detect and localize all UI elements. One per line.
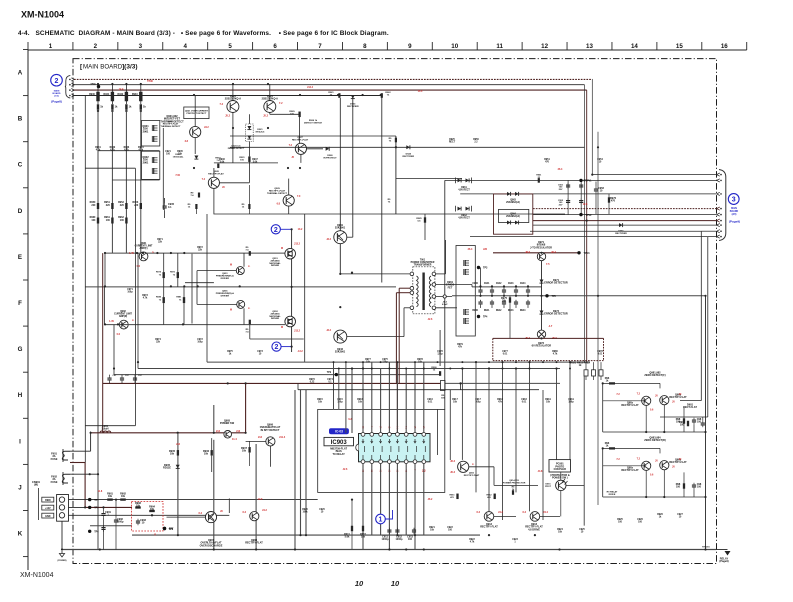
svg-text:J8.6: J8.6 xyxy=(525,251,530,254)
svg-text:4.7k: 4.7k xyxy=(470,541,475,544)
wire cn pin1 xyxy=(69,499,318,501)
wire right link xyxy=(290,179,292,217)
resistor row C2 xyxy=(97,218,99,224)
transistor Q906 thermal xyxy=(266,437,275,446)
maroon box c-mosfet xyxy=(494,194,533,234)
svg-text:2: 2 xyxy=(55,78,59,85)
resistors under ic xyxy=(351,526,353,532)
svg-text:RECTIFY-FLAT: RECTIFY-FLAT xyxy=(669,461,687,464)
svg-text:(2/3): (2/3) xyxy=(732,214,737,216)
diode quad top xyxy=(507,192,511,196)
node TP903 xyxy=(477,266,480,269)
svg-text:R940: R940 xyxy=(89,93,95,96)
svg-text:100: 100 xyxy=(697,421,702,424)
transistor Q913 xyxy=(530,512,540,522)
svg-text:TP1: TP1 xyxy=(94,499,99,502)
wire exit y180 xyxy=(445,179,716,181)
svg-text:J5.2: J5.2 xyxy=(225,115,230,118)
ic903 pin top 7 xyxy=(413,433,417,437)
svg-text:2: 2 xyxy=(94,43,98,50)
svg-text:(M): (M) xyxy=(34,483,38,487)
transistor Q925 thermal xyxy=(190,126,201,137)
transistor Q923 xyxy=(227,101,239,113)
caps under ic xyxy=(387,529,391,531)
svg-text:M: M xyxy=(230,309,232,312)
wire q907 xyxy=(167,516,206,518)
svg-text:2SK2962(x2): 2SK2962(x2) xyxy=(506,202,520,204)
svg-text:4: 4 xyxy=(183,43,187,50)
wire maroon y252 xyxy=(493,252,579,254)
capacitor C982 xyxy=(701,422,705,424)
svg-text:FET: FET xyxy=(448,286,453,289)
svg-text:J-TO REGULATOR: J-TO REGULATOR xyxy=(530,246,552,249)
svg-text:RECTIFIER: RECTIFIER xyxy=(615,233,627,235)
svg-text:M: M xyxy=(281,247,283,250)
svg-text:12: 12 xyxy=(541,43,548,50)
svg-text:R942: R942 xyxy=(117,93,123,96)
caps bank secondary xyxy=(478,289,482,291)
svg-text:RECTIFY-FLAT: RECTIFY-FLAT xyxy=(464,474,480,477)
wire v352 up xyxy=(351,369,353,434)
main board border (dash-dot) xyxy=(73,59,717,564)
resistor R929 xyxy=(298,112,300,118)
svg-text:10k: 10k xyxy=(204,453,209,456)
resistor in xyxy=(609,382,615,384)
svg-text:220: 220 xyxy=(106,204,111,207)
transistor Q924 xyxy=(264,101,276,113)
ic903 pin top 1 xyxy=(361,433,365,437)
svg-text:15: 15 xyxy=(676,43,683,50)
svg-text:TRANSFORMER: TRANSFORMER xyxy=(414,264,432,267)
node TPV2 xyxy=(579,213,582,216)
diode pair cluster 1 xyxy=(458,178,462,182)
svg-text:J4.8: J4.8 xyxy=(538,470,543,473)
resistor R951b inline xyxy=(538,178,540,183)
node tp162 xyxy=(163,527,166,530)
wire exit y236 xyxy=(708,236,716,238)
svg-text:D: D xyxy=(18,208,23,215)
svg-text:IN SPY DETECT: IN SPY DETECT xyxy=(261,429,280,432)
svg-text:13.2: 13.2 xyxy=(298,228,303,231)
ic pin internal xyxy=(424,446,426,452)
svg-text:R941: R941 xyxy=(103,93,109,96)
resistor R963 xyxy=(512,490,514,495)
svg-text:J5.2: J5.2 xyxy=(263,115,268,118)
svg-text:R970: R970 xyxy=(156,272,162,274)
diode D923 rectifier xyxy=(351,95,355,99)
resistor R993 inline xyxy=(249,320,251,325)
ic pin internal xyxy=(372,446,374,452)
svg-text:7.00: 7.00 xyxy=(175,174,180,177)
wire v440 xyxy=(439,330,441,366)
node TP901 xyxy=(97,85,100,88)
svg-text:FUSE: FUSE xyxy=(51,457,58,461)
svg-text:6: 6 xyxy=(273,43,277,50)
diode D981 on exit xyxy=(619,223,623,227)
svg-text:100: 100 xyxy=(408,538,413,541)
svg-text:100p: 100p xyxy=(127,292,133,294)
regulator maroon dashed enclosure xyxy=(492,338,494,360)
svg-text:-4.7: -4.7 xyxy=(548,325,553,328)
resistor R914 xyxy=(140,101,142,104)
wire maroon ic pin5 xyxy=(396,380,398,433)
red dashed option box xyxy=(132,502,164,532)
svg-text:FUSE: FUSE xyxy=(51,480,58,484)
rc cluster xyxy=(683,483,685,489)
resistor R962 xyxy=(494,494,496,500)
transistor Q937 predrive F xyxy=(236,267,244,275)
wire rail y295 right xyxy=(452,295,706,297)
ic pin internal xyxy=(390,446,392,452)
entry arrow xyxy=(69,95,71,97)
entry arrow xyxy=(69,89,71,91)
svg-text:DRIVER: DRIVER xyxy=(221,296,230,298)
ic pin internal xyxy=(364,446,366,452)
svg-text:10k: 10k xyxy=(361,536,366,539)
wire corner y425 xyxy=(85,425,135,427)
wire exit y231 xyxy=(701,230,716,232)
capacitor C905 xyxy=(163,205,167,207)
svg-text:2SK2961: 2SK2961 xyxy=(335,227,346,230)
node tp cn xyxy=(88,498,91,501)
wire jack2 xyxy=(70,473,98,475)
wire v707 xyxy=(707,237,709,417)
diode quad bottom xyxy=(507,221,511,225)
svg-text:IC903: IC903 xyxy=(331,440,348,446)
wire zener col xyxy=(248,114,250,124)
svg-text:9: 9 xyxy=(408,43,412,50)
wire y368 rail xyxy=(138,368,560,370)
wire ic box xyxy=(318,409,445,492)
photo coupler box xyxy=(549,460,571,472)
svg-text:-13.2: -13.2 xyxy=(297,350,303,353)
transformer windings xyxy=(417,276,419,307)
svg-text:(Page9): (Page9) xyxy=(719,559,728,563)
svg-text:1SS133AL: 1SS133AL xyxy=(173,155,184,158)
ic wires down xyxy=(362,464,364,550)
svg-text:BOARD: BOARD xyxy=(730,210,739,213)
wire q941 drain to pin1 xyxy=(339,244,341,274)
wire q923 emitter xyxy=(232,113,234,163)
svg-text:RECTIFY-FLAT: RECTIFY-FLAT xyxy=(480,526,498,529)
wire maroon y338 xyxy=(493,337,604,339)
svg-text:6.2: 6.2 xyxy=(199,512,203,515)
wire q942 to pin4 xyxy=(347,336,404,338)
svg-text:7: 7 xyxy=(318,43,322,50)
svg-text:10k: 10k xyxy=(242,450,247,453)
wire maroon v245 xyxy=(245,383,247,432)
svg-text:3: 3 xyxy=(732,197,736,204)
svg-text:1000p: 1000p xyxy=(382,538,389,541)
wire vertical maroon bus xyxy=(586,90,588,362)
ic903 pin bottom 5 xyxy=(396,460,400,464)
wire exit y174 xyxy=(592,174,716,176)
svg-text:AMP(R): AMP(R) xyxy=(119,315,128,318)
wire exit y214 xyxy=(533,214,716,216)
transformer core xyxy=(422,273,424,311)
wire y549 long xyxy=(62,549,716,551)
svg-text:1.4V: 1.4V xyxy=(109,320,114,323)
resistor R923 corner xyxy=(395,138,397,143)
wire y374 rail xyxy=(114,374,441,376)
wire column 2 xyxy=(111,110,113,253)
svg-text:J12: J12 xyxy=(236,430,241,433)
cap under ic 3 xyxy=(412,529,416,531)
svg-text:2SK2961: 2SK2961 xyxy=(335,351,346,354)
diode D924 xyxy=(406,145,410,149)
wire maroon v102 xyxy=(102,253,104,433)
wire jack1 xyxy=(70,450,91,452)
wire cn pin2 xyxy=(69,506,86,508)
svg-text:25V: 25V xyxy=(559,204,563,206)
bracket for connector 3 xyxy=(719,170,726,241)
svg-text:DETECT SWITCH: DETECT SWITCH xyxy=(304,122,322,124)
svg-text:100p: 100p xyxy=(475,402,481,404)
svg-text:J2.6: J2.6 xyxy=(343,468,348,471)
wire y136 line xyxy=(230,135,396,137)
svg-text:R944: R944 xyxy=(520,309,526,312)
connector 2 mid bottom xyxy=(272,342,281,351)
wire cn pin3 xyxy=(69,514,230,516)
svg-text:R943: R943 xyxy=(132,93,138,96)
svg-text:1: 1 xyxy=(49,43,53,50)
relay resistors xyxy=(584,370,588,376)
node TP906 xyxy=(335,373,338,376)
diode D926 out xyxy=(307,148,324,150)
resistor R975 xyxy=(509,297,511,303)
svg-text:0.1: 0.1 xyxy=(168,206,172,209)
svg-text:7.2: 7.2 xyxy=(279,102,283,105)
wire top xyxy=(603,382,660,384)
svg-text:10k: 10k xyxy=(170,453,175,456)
svg-text:100: 100 xyxy=(676,421,681,424)
svg-text:OVER DISCHARGE: OVER DISCHARGE xyxy=(200,544,223,547)
wire q941 gate xyxy=(352,95,354,237)
transistor Q911 xyxy=(458,461,469,472)
resistors cn line xyxy=(107,498,113,500)
svg-text:4.7k: 4.7k xyxy=(124,149,129,152)
diode D922 xyxy=(194,156,198,160)
resistor grid mid top xyxy=(163,272,165,278)
wire q927 col xyxy=(300,142,302,144)
entry arrow xyxy=(69,79,71,81)
bracket left xyxy=(38,488,40,520)
svg-text:26.4: 26.4 xyxy=(558,168,563,171)
svg-text:100k: 100k xyxy=(302,512,308,514)
input jack F902 xyxy=(62,474,70,483)
zener D905 xyxy=(176,465,180,469)
resistor R936 inline xyxy=(439,371,441,376)
wire q929 xyxy=(288,179,290,195)
svg-text:COUPLER: COUPLER xyxy=(554,468,566,471)
svg-text:TP9: TP9 xyxy=(327,372,332,374)
wire bus A xyxy=(74,84,585,86)
wire out column xyxy=(291,229,293,248)
svg-text:J8.4: J8.4 xyxy=(551,251,556,254)
svg-text:TP5: TP5 xyxy=(552,295,557,298)
svg-text:G: G xyxy=(18,346,23,353)
svg-text:120p: 120p xyxy=(382,362,388,364)
resistor R922 inline xyxy=(381,93,383,98)
extra dots 2 xyxy=(333,361,335,363)
svg-text:4.7k: 4.7k xyxy=(139,149,144,152)
wire v705 xyxy=(705,296,707,550)
wire sec pin1 up xyxy=(445,240,447,274)
resistor R982 xyxy=(687,421,689,427)
svg-text:C943: C943 xyxy=(508,282,514,285)
svg-text:5.6k: 5.6k xyxy=(345,536,350,539)
svg-text:J4.4: J4.4 xyxy=(543,511,548,514)
svg-text:C: C xyxy=(18,162,23,169)
wire bus C xyxy=(74,95,382,97)
svg-text:(POWER): (POWER) xyxy=(58,560,67,562)
zener D972 xyxy=(540,311,544,315)
wire top mid corner xyxy=(395,136,397,214)
node tp after box xyxy=(163,527,166,530)
transistor Q929 thermal2 xyxy=(283,195,294,206)
svg-text:B: B xyxy=(18,116,23,123)
svg-text:J-: J- xyxy=(152,251,154,254)
ic pin internal xyxy=(416,446,418,452)
wire diff pair to bus xyxy=(232,84,234,101)
wire y400 stub xyxy=(680,400,701,402)
svg-text:K: K xyxy=(18,531,23,538)
svg-text:R941: R941 xyxy=(484,309,490,312)
power mosfet output F xyxy=(285,248,296,259)
entry arrow xyxy=(69,84,71,86)
svg-text:C940: C940 xyxy=(472,282,478,285)
svg-text:POWER SW: POWER SW xyxy=(220,422,235,425)
svg-text:6.2: 6.2 xyxy=(523,511,527,514)
resistor R992 inline xyxy=(249,251,251,256)
ic pin internal xyxy=(407,446,409,452)
wire y535 rail xyxy=(132,534,480,536)
wire maroon primary taps xyxy=(399,287,410,289)
svg-text:C944: C944 xyxy=(520,282,526,285)
resistor R903 xyxy=(125,84,127,92)
svg-text:I: I xyxy=(19,438,21,445)
svg-text:7.5: 7.5 xyxy=(546,263,550,266)
ic903 pin bottom 1 xyxy=(361,460,365,464)
wire left links ef xyxy=(191,254,193,324)
transistor Q972 5v regulator xyxy=(537,330,545,338)
svg-text:0.01: 0.01 xyxy=(503,354,508,356)
wire driver right xyxy=(162,128,164,210)
svg-text:AMP(F): AMP(F) xyxy=(139,247,147,250)
svg-text:11.8: 11.8 xyxy=(98,490,103,493)
wire sec pin4 xyxy=(436,307,457,309)
wire column 4 xyxy=(140,110,142,253)
svg-text:H: H xyxy=(18,392,23,399)
wire y383 gray xyxy=(445,382,560,384)
ic wires up xyxy=(362,362,364,432)
wire y214 run xyxy=(214,213,566,215)
ic903 pin top 8 xyxy=(422,433,426,437)
wire maroon y383 rail xyxy=(103,382,441,384)
svg-text:TPV1: TPV1 xyxy=(586,180,593,183)
resistor string q905 xyxy=(177,450,179,456)
svg-text:12.0: 12.0 xyxy=(258,498,263,501)
svg-text:R981: R981 xyxy=(176,297,182,299)
resistor R925 xyxy=(424,217,426,223)
svg-text:IN PROTECT: IN PROTECT xyxy=(323,157,337,159)
svg-text:4.8V RECT: 4.8V RECT xyxy=(458,189,470,192)
svg-text:TP2: TP2 xyxy=(94,507,99,510)
svg-text:2961: 2961 xyxy=(143,129,149,133)
resistor R902 xyxy=(111,84,113,92)
wire exit y194 xyxy=(460,193,716,195)
box overcurrent detect xyxy=(184,107,209,119)
svg-text:TP4: TP4 xyxy=(483,316,488,319)
svg-text:220: 220 xyxy=(120,204,125,207)
svg-text:100: 100 xyxy=(91,219,96,222)
wire v444 down to ic box xyxy=(444,180,446,409)
svg-text:4.7k: 4.7k xyxy=(553,353,558,356)
junction dots xyxy=(97,83,99,85)
svg-text:ERROR DETECTOR: ERROR DETECTOR xyxy=(544,282,568,285)
long gray verticals xyxy=(177,433,179,535)
svg-text:RY9201: RY9201 xyxy=(702,547,710,549)
svg-text:J6.2: J6.2 xyxy=(428,498,433,501)
wire y417 xyxy=(660,416,708,418)
transformer dashed box xyxy=(413,267,435,314)
svg-text:THERMAL DETECT: THERMAL DETECT xyxy=(267,192,288,195)
svg-text:4.7k: 4.7k xyxy=(110,149,115,152)
resistor grid mid bottom xyxy=(163,297,165,303)
resistor R976 xyxy=(608,197,610,203)
wire verticals left of IC xyxy=(333,362,335,409)
svg-text:J6.2: J6.2 xyxy=(450,460,455,463)
svg-text:(1/3): (1/3) xyxy=(54,96,59,98)
svg-text:2961: 2961 xyxy=(143,160,149,164)
svg-text:10k: 10k xyxy=(150,508,155,511)
svg-text:J2.6: J2.6 xyxy=(428,318,433,321)
svg-text:10k: 10k xyxy=(502,300,507,303)
wire rail y253 xyxy=(105,252,285,254)
svg-text:R943: R943 xyxy=(508,309,514,312)
wire +B bus dashed maroon xyxy=(74,78,592,80)
svg-text:J: J xyxy=(18,484,22,491)
wire v702 pair xyxy=(700,231,702,400)
svg-text:(Page9): (Page9) xyxy=(729,220,740,224)
ic903 body xyxy=(359,434,431,462)
transistor Q938 predrive R xyxy=(237,300,245,308)
svg-text:DRIVER: DRIVER xyxy=(271,318,280,320)
wire q924 to r xyxy=(269,113,271,115)
ic pin internal xyxy=(398,446,400,452)
transistor Q912 xyxy=(484,512,494,522)
svg-text:100p: 100p xyxy=(568,402,574,404)
svg-text:XM-N1004: XM-N1004 xyxy=(21,10,64,20)
svg-text:0.01: 0.01 xyxy=(598,354,603,356)
wire vertical right bus A xyxy=(584,85,586,362)
svg-text:J12: J12 xyxy=(216,430,221,433)
resistor R912 xyxy=(111,101,113,104)
ic903 pin bottom 3 xyxy=(379,460,383,464)
svg-text:RECTIFY-FLAT: RECTIFY-FLAT xyxy=(669,396,687,399)
svg-text:4.7k: 4.7k xyxy=(143,297,148,300)
svg-text:J-: J- xyxy=(132,319,134,322)
svg-text:ZENER DETECT: ZENER DETECT xyxy=(228,148,245,150)
transistor Q905 switch xyxy=(224,431,232,439)
transformer pins left xyxy=(410,272,414,276)
svg-text:4.8V RECT: 4.8V RECT xyxy=(458,217,470,220)
svg-text:1000p: 1000p xyxy=(117,521,124,524)
wire maroon v397 xyxy=(396,383,398,433)
grid ruler top xyxy=(28,49,747,51)
svg-text:25V: 25V xyxy=(559,189,563,191)
svg-text:RECTIFY+FLAT: RECTIFY+FLAT xyxy=(292,138,309,141)
